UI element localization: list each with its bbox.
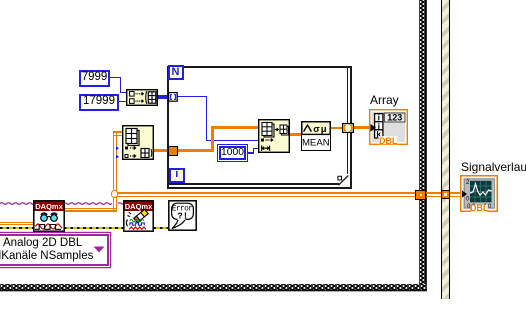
for loop inner border right — [347, 66, 348, 185]
Array indicator icon — [369, 109, 408, 145]
for loop outer border bottom — [167, 187, 352, 189]
wire: 2D DBL array corner into Array Subset input — [113, 131, 123, 133]
for loop i terminal — [169, 168, 185, 183]
Build Array function — [126, 89, 158, 106]
unwired input stubs (blue arrows) on Array Subset — [116, 146, 122, 160]
svg-text:DAQmx: DAQmx — [125, 202, 153, 211]
wire: 2D DBL array from DAQmx Read data-out, horizontal run — [64, 208, 117, 210]
numeric constant 17999 — [79, 94, 119, 111]
svg-text:μ: μ — [321, 124, 327, 135]
svg-text:DAQmx: DAQmx — [35, 202, 63, 211]
polymorphic VI selector: Analog 2D DBL / NKanäle NSamples — [0, 234, 109, 266]
DAQmx Clear Task VI icon — [123, 200, 154, 232]
Array Subset function (outside loop) — [122, 125, 154, 160]
label Array — [370, 94, 399, 107]
wire: 2D DBL array vertical riser x=112.7 — [113, 131, 115, 212]
label Signalverlauf — [461, 161, 526, 174]
wire: DBL scalar MEAN out to output tunnel — [331, 127, 342, 129]
wire: DBL 1D array from tunnel to Array indicator — [353, 126, 371, 129]
wire: thick orange Array Subset 2 out to MEAN — [289, 133, 302, 136]
Simple Error Handler VI icon — [168, 200, 197, 231]
DAQmx Read VI icon — [33, 200, 65, 232]
auto-indexing input tunnel [] — [168, 92, 178, 102]
for loop inner border bottom — [167, 183, 348, 184]
orange tunnel (array subset into loop) — [168, 146, 178, 156]
numeric constant 7999 — [79, 70, 110, 87]
for loop corner fold — [339, 174, 350, 185]
flat sequence structure right border (chain braid vertical) — [419, 0, 427, 291]
flat sequence structure bottom border (chain braid horizontal) — [0, 284, 427, 292]
wire: 2D DBL array stub from left edge into DAQmx Read — [0, 222, 35, 223]
wire: DAQmx task (purple squiggle) short segment before Clear Task — [118, 201, 126, 205]
wire: DAQmx task (purple squiggle) left segment — [0, 201, 112, 205]
for loop N terminal — [168, 65, 184, 81]
wire junction ring — [111, 190, 119, 198]
wire: thick orange inside loop: tunnel right, up, into Array Subset 2 — [177, 149, 214, 152]
disable structure left border (diagonal striped strip) — [441, 0, 450, 299]
auto-indexing output tunnel [] — [342, 123, 354, 133]
Array Subset function (inside loop) — [258, 119, 290, 153]
for loop outer border right — [350, 66, 352, 190]
svg-text:DBL: DBL — [379, 136, 398, 145]
wire: I32 from 1000 constant to Array Subset 2 length — [248, 152, 254, 153]
svg-text:123: 123 — [387, 113, 402, 123]
svg-text:σ: σ — [313, 124, 320, 135]
wire: I32 from 7999 constant — [110, 77, 121, 78]
tunnel on disable-structure border — [441, 190, 451, 200]
wire: 2D DBL array main horizontal run to Signalverlauf — [116, 192, 462, 194]
Signalverlauf waveform indicator — [460, 175, 498, 212]
sequence tunnel on chain border — [415, 190, 426, 201]
svg-text:MEAN: MEAN — [302, 138, 330, 149]
wire: I32 1D array (thick blue) Build Array to loop tunnel — [158, 95, 169, 98]
wire: I32 scalar from auto-index tunnel to Array Subset 2 index — [177, 96, 207, 97]
svg-text:DBL: DBL — [470, 203, 489, 212]
wire: DBL 2D subset (thick orange) Array Subset 1 out to loop tunnel — [153, 149, 169, 152]
svg-text:?!: ?! — [177, 211, 188, 221]
numeric constant 1000 — [217, 144, 248, 162]
wire: error cluster (dashed dark-yellow) from left edge to error handler — [0, 227, 169, 229]
wire: I32 from 17999 constant — [119, 101, 127, 102]
MEAN function — [301, 121, 331, 151]
for loop outer border left — [167, 66, 169, 190]
for loop outer border top — [167, 66, 352, 68]
